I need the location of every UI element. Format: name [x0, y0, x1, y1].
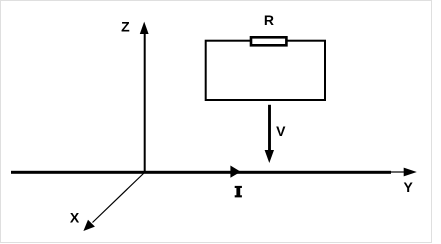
wire (current-carrying conductor along Y axis) — [11, 171, 391, 174]
X axis line — [93, 173, 145, 223]
V arrowhead — [265, 150, 274, 163]
Z axis arrowhead — [140, 22, 149, 34]
Z axis line — [144, 33, 146, 171]
loop rectangle — [206, 41, 325, 100]
svg-text:X: X — [70, 210, 80, 226]
Y axis line — [390, 171, 405, 173]
X axis arrowhead — [83, 220, 95, 231]
svg-text:Z: Z — [121, 19, 130, 35]
svg-text:V: V — [276, 123, 286, 139]
label I — [235, 186, 242, 198]
resistor R1 body — [251, 37, 286, 45]
svg-text:Y: Y — [404, 179, 414, 195]
V arrow shaft — [268, 105, 271, 151]
svg-text:R: R — [264, 12, 274, 28]
Y axis arrowhead — [404, 168, 417, 177]
current arrowhead I — [230, 166, 240, 178]
